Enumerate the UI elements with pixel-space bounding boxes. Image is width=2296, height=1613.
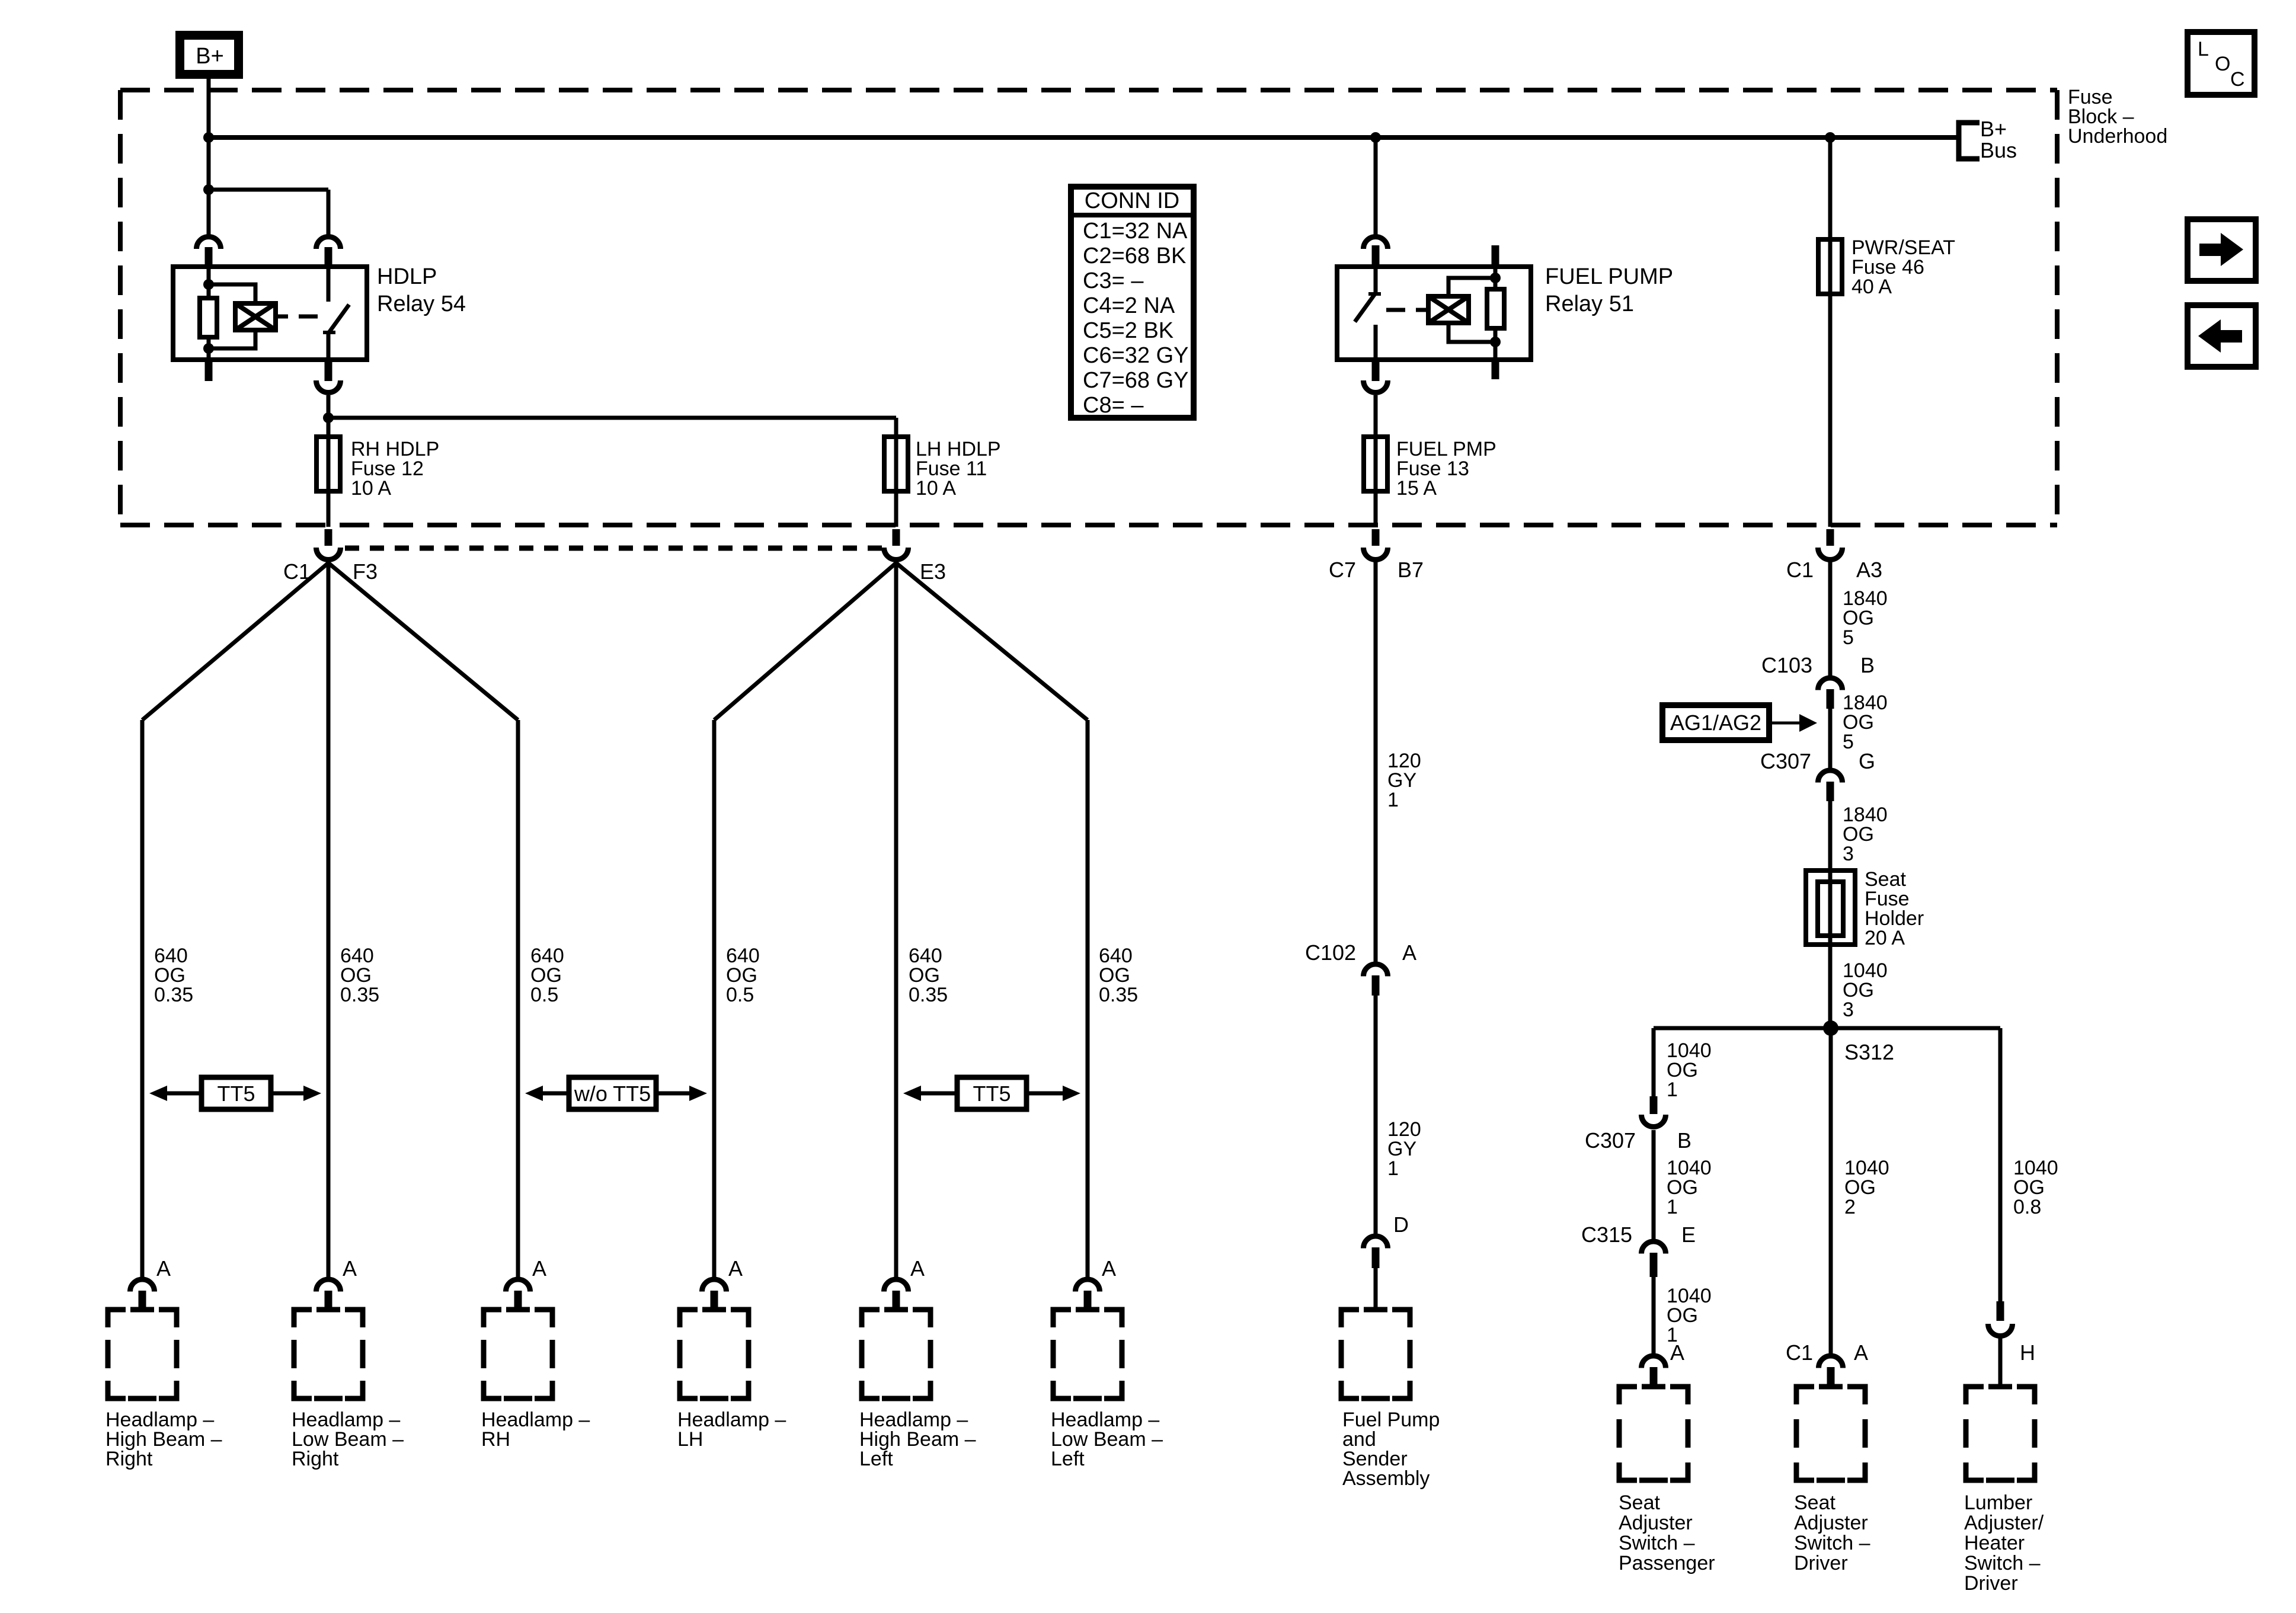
AG1/AG2 option box xyxy=(1662,705,1769,740)
svg-text:A3: A3 xyxy=(1856,558,1882,582)
relay K54: coil loop wires xyxy=(209,284,255,303)
B+ Bus terminal bracket xyxy=(1959,123,1980,159)
svg-text:B+: B+ xyxy=(196,44,224,69)
connector: fuel pump pin D xyxy=(1364,1236,1388,1249)
svg-text:C: C xyxy=(2230,68,2245,91)
svg-text:B: B xyxy=(1860,653,1875,677)
wire: bus to relay 51 switch pin xyxy=(1374,137,1378,235)
load box: Headlamp – High Beam – Right xyxy=(108,1310,126,1327)
svg-text:L: L xyxy=(2198,38,2209,60)
option arrow right (w/o TT5) xyxy=(656,1092,689,1096)
fuse F13 (FUEL PMP) xyxy=(1364,437,1387,491)
wire: fuel pump feed lower xyxy=(1374,996,1378,1234)
svg-text:C315: C315 xyxy=(1581,1222,1632,1247)
relay K54: coil (X-box) xyxy=(235,303,276,330)
relay K51: junction coil/resistor bottom xyxy=(1490,273,1501,283)
relay K54: case xyxy=(173,267,367,360)
wire: fuse 46 output xyxy=(1828,294,1833,527)
wire: B+ feed down to relay 54 coil pin xyxy=(207,79,211,235)
AG1/AG2 arrow xyxy=(1769,722,1802,725)
svg-text:A: A xyxy=(910,1256,925,1281)
svg-text:TT5: TT5 xyxy=(217,1081,255,1106)
svg-text:G: G xyxy=(1859,749,1875,773)
load box: Lumber Adjuster/Heater Switch - Driver xyxy=(1966,1387,1984,1404)
LOC legend box xyxy=(2188,32,2255,95)
wire: seat feed 1840 upper xyxy=(1828,562,1833,676)
relay K54: coil supply branch wire xyxy=(207,267,211,298)
svg-text:CONN ID: CONN ID xyxy=(1085,188,1179,213)
svg-text:B+: B+ xyxy=(1980,117,2007,141)
svg-text:Switch –: Switch – xyxy=(1964,1552,2041,1574)
svg-text:A: A xyxy=(728,1256,743,1281)
svg-text:B: B xyxy=(1677,1128,1691,1153)
svg-text:F3: F3 xyxy=(353,559,378,584)
connector half: headlamp 6 pin A xyxy=(1075,1279,1099,1292)
svg-text:C1=32 NA: C1=32 NA xyxy=(1083,219,1188,244)
load box: Headlamp – Low Beam – Right xyxy=(294,1310,312,1327)
fuse F11 (LH HDLP) xyxy=(884,437,908,491)
svg-text:20 A: 20 A xyxy=(1865,927,1905,949)
svg-text:A: A xyxy=(1854,1340,1868,1365)
connector C307 pin G xyxy=(1818,770,1843,783)
wire: fuse 13 output xyxy=(1374,491,1378,527)
svg-text:RH: RH xyxy=(481,1428,510,1451)
svg-text:0.35: 0.35 xyxy=(1099,984,1138,1006)
svg-text:C307: C307 xyxy=(1760,749,1811,773)
wire: passenger branch upper xyxy=(1652,1028,1656,1096)
connector C1 cavity A3 (pin) xyxy=(1827,529,1834,546)
svg-text:Switch –: Switch – xyxy=(1619,1532,1695,1554)
junction: RH/LH headlamp fuse feed xyxy=(323,412,334,423)
svg-text:C7: C7 xyxy=(1329,558,1356,582)
wire: passenger branch middle xyxy=(1652,1130,1656,1240)
svg-text:O: O xyxy=(2215,53,2230,75)
svg-text:HDLP: HDLP xyxy=(377,264,437,289)
svg-text:5: 5 xyxy=(1843,626,1854,649)
svg-text:C2=68 BK: C2=68 BK xyxy=(1083,244,1186,268)
connector C7 cavity B7 (pin) xyxy=(1372,529,1380,546)
wire: fuse 12 output xyxy=(327,491,331,527)
wire: feed across to LH HDLP fuse xyxy=(328,416,896,420)
svg-text:1: 1 xyxy=(1387,789,1399,811)
wire: seat feed 1840 middle xyxy=(1828,709,1833,769)
connector C102 pin A xyxy=(1364,964,1388,977)
B+ bus line xyxy=(209,135,1957,140)
svg-text:Bus: Bus xyxy=(1980,138,2017,162)
svg-text:Seat: Seat xyxy=(1794,1492,1835,1514)
svg-text:1: 1 xyxy=(1667,1078,1678,1101)
svg-text:Right: Right xyxy=(105,1448,153,1470)
relay K54: switch fixed contact xyxy=(327,267,331,302)
svg-text:LH: LH xyxy=(677,1428,703,1451)
svg-text:C4=2 NA: C4=2 NA xyxy=(1083,293,1175,318)
wire: bus to PWR/SEAT fuse xyxy=(1828,137,1833,239)
relay K51: switch output wire xyxy=(1374,267,1378,294)
svg-text:E3: E3 xyxy=(920,559,946,584)
wire: headlamp feed x=554 xyxy=(327,562,331,1278)
svg-text:B7: B7 xyxy=(1398,558,1424,582)
svg-text:0.5: 0.5 xyxy=(530,984,558,1006)
svg-text:C5=2 BK: C5=2 BK xyxy=(1083,318,1173,343)
seat fuse holder (in-line) xyxy=(1806,870,1855,945)
wire: splice bus to passenger and lumbar branches xyxy=(1654,1026,2000,1030)
wire: headlamp feed fan x=240 xyxy=(142,563,328,720)
svg-text:A: A xyxy=(156,1256,171,1281)
wire: passenger branch lower xyxy=(1652,1277,1656,1354)
wire: fuse holder to splice S312 xyxy=(1828,945,1833,1028)
svg-text:Right: Right xyxy=(292,1448,339,1470)
svg-text:2: 2 xyxy=(1844,1196,1856,1218)
svg-text:10 A: 10 A xyxy=(351,477,391,500)
connector: driver switch pin A xyxy=(1819,1356,1843,1368)
svg-text:1: 1 xyxy=(1667,1196,1678,1218)
svg-text:C8= –: C8= – xyxy=(1083,393,1144,418)
connector half: relay 54 pin (coil side) xyxy=(196,237,220,249)
svg-text:Passenger: Passenger xyxy=(1619,1552,1715,1574)
relay K54: switch output wire xyxy=(327,332,331,360)
svg-text:0.35: 0.35 xyxy=(909,984,948,1006)
connector half: headlamp 1 pin A xyxy=(130,1279,155,1292)
wire: driver branch xyxy=(1829,1028,1833,1354)
option arrow left (TT5) xyxy=(167,1092,202,1096)
svg-text:C307: C307 xyxy=(1585,1128,1636,1153)
svg-text:Driver: Driver xyxy=(1964,1572,2018,1595)
svg-text:D: D xyxy=(1393,1212,1409,1237)
relay K51: switch blade xyxy=(1355,294,1375,322)
wire: headlamp feed fan x=874 xyxy=(328,563,518,720)
wire: fuse 11 output xyxy=(894,491,898,527)
option box: TT5 xyxy=(957,1077,1027,1109)
wire: into lumbar switch xyxy=(1998,1338,2003,1387)
relay K51: actuator dashed link xyxy=(1416,308,1428,312)
connector half: headlamp 5 pin A xyxy=(884,1279,909,1292)
svg-text:40 A: 40 A xyxy=(1851,276,1892,298)
wire: relay 51 output to fuse 13 xyxy=(1374,395,1378,437)
wire: fuel pump feed upper xyxy=(1374,562,1378,962)
connector C1 cavity F3 (pin) xyxy=(325,529,332,546)
svg-text:C3= –: C3= – xyxy=(1083,268,1144,293)
wire: headlamp feed fan x=1205 xyxy=(714,563,896,720)
connector half: relay 51 switch output xyxy=(1372,360,1380,381)
connector: passenger switch pin A xyxy=(1642,1356,1666,1368)
connector half: headlamp 4 pin A xyxy=(702,1279,727,1292)
connector half: headlamp 2 pin A xyxy=(316,1279,341,1292)
svg-text:C103: C103 xyxy=(1761,653,1812,677)
wire: into fuel pump assembly xyxy=(1374,1268,1378,1310)
load box: Fuel Pump and Sender Assembly xyxy=(1341,1310,1359,1327)
svg-text:0.35: 0.35 xyxy=(154,984,193,1006)
wire: relay 54 output to fuse junction xyxy=(327,395,331,437)
svg-text:Driver: Driver xyxy=(1794,1552,1848,1574)
svg-text:Left: Left xyxy=(1051,1448,1085,1470)
connector half: headlamp 3 pin A xyxy=(506,1279,530,1292)
relay K51: switch fixed contact xyxy=(1374,325,1378,360)
wire: seat feed 1840 lower xyxy=(1828,801,1833,870)
load box: Headlamp – High Beam – Left xyxy=(862,1310,880,1327)
connector C1 cavity E3 (pin) xyxy=(893,529,900,546)
connector: lumbar switch pin H xyxy=(1997,1301,2004,1321)
svg-text:A: A xyxy=(1402,940,1416,965)
svg-text:15 A: 15 A xyxy=(1396,477,1437,500)
svg-text:Assembly: Assembly xyxy=(1342,1467,1430,1490)
fuse F12 (RH HDLP) xyxy=(316,437,340,491)
relay K54: suppression resistor xyxy=(200,298,217,337)
svg-text:C1: C1 xyxy=(1786,558,1814,582)
relay K51: coil (X-box) xyxy=(1428,296,1469,323)
connector half: relay 51 switch pin xyxy=(1364,237,1388,249)
svg-text:Heater: Heater xyxy=(1964,1532,2025,1554)
option arrow right (TT5) xyxy=(1027,1092,1063,1096)
load box: Seat Adjuster Switch - Passenger xyxy=(1619,1387,1637,1404)
svg-text:S312: S312 xyxy=(1844,1040,1894,1064)
option box: TT5 xyxy=(202,1077,271,1109)
connector half: relay 54 switch output xyxy=(325,360,332,381)
connector C1 body (dotted line) xyxy=(345,546,882,551)
svg-text:Seat: Seat xyxy=(1619,1492,1660,1514)
relay K54: actuator dashed link xyxy=(276,315,288,319)
svg-text:A: A xyxy=(343,1256,357,1281)
svg-text:Relay 54: Relay 54 xyxy=(377,292,466,316)
relay K51: pin stubs xyxy=(1492,360,1499,379)
svg-text:C1: C1 xyxy=(1786,1340,1813,1365)
CONN ID table box xyxy=(1071,187,1194,418)
svg-text:Underhood: Underhood xyxy=(2068,125,2167,148)
relay K51: case xyxy=(1337,267,1531,360)
svg-text:Relay 51: Relay 51 xyxy=(1545,292,1634,316)
load box: Headlamp – LH xyxy=(680,1310,698,1327)
wire: headlamp feed fan x=1835 xyxy=(896,563,1088,720)
svg-text:3: 3 xyxy=(1843,998,1854,1021)
svg-text:C102: C102 xyxy=(1305,940,1356,965)
svg-text:1: 1 xyxy=(1387,1157,1399,1180)
relay K54: switch blade xyxy=(329,305,349,332)
svg-text:E: E xyxy=(1681,1222,1696,1247)
load box: Seat Adjuster Switch - Driver xyxy=(1796,1387,1814,1404)
svg-text:5: 5 xyxy=(1843,731,1854,753)
svg-text:Adjuster: Adjuster xyxy=(1794,1512,1868,1534)
wire: headlamp feed x=1512 xyxy=(894,562,898,1278)
svg-text:C6=32 GY: C6=32 GY xyxy=(1083,343,1189,368)
option arrow left (TT5) xyxy=(921,1092,957,1096)
svg-text:Adjuster/: Adjuster/ xyxy=(1964,1512,2044,1534)
wire: branch to relay 54 switch pin xyxy=(209,188,328,192)
relay K51: suppression resistor xyxy=(1487,289,1504,328)
svg-text:3: 3 xyxy=(1843,843,1854,865)
legend box: arrow left xyxy=(2188,305,2256,367)
svg-text:AG1/AG2: AG1/AG2 xyxy=(1670,711,1761,735)
relay K54: pin stubs xyxy=(205,247,213,267)
relay K51: coil supply branch wire xyxy=(1494,328,1498,360)
svg-text:0.5: 0.5 xyxy=(726,984,754,1006)
svg-text:A: A xyxy=(532,1256,546,1281)
wire: lumbar branch xyxy=(1998,1028,2003,1301)
splice S312 xyxy=(1823,1020,1838,1036)
svg-text:Left: Left xyxy=(859,1448,893,1470)
svg-text:0.35: 0.35 xyxy=(340,984,379,1006)
option arrow right (TT5) xyxy=(271,1092,303,1096)
fuse block - underhood (dashed boundary box) xyxy=(120,88,2057,92)
B+ power feed box xyxy=(180,36,239,75)
load box: Headlamp – Low Beam – Left xyxy=(1053,1310,1071,1327)
connector C103 pin B xyxy=(1818,678,1843,690)
relay K51: coil loop wires xyxy=(1448,323,1495,342)
svg-text:0.8: 0.8 xyxy=(2013,1196,2041,1218)
connector C315 pin E xyxy=(1642,1241,1666,1254)
junction: relay 54 coil/switch feed xyxy=(203,184,214,195)
svg-text:FUEL PUMP: FUEL PUMP xyxy=(1545,264,1673,289)
svg-text:Lumber: Lumber xyxy=(1964,1492,2032,1514)
junction: bus / PWR-SEAT fuse branch xyxy=(1825,132,1835,143)
svg-text:TT5: TT5 xyxy=(973,1081,1011,1106)
svg-text:10 A: 10 A xyxy=(916,477,956,500)
svg-text:A: A xyxy=(1102,1256,1116,1281)
legend box: arrow right xyxy=(2188,219,2256,281)
option box: w/o TT5 xyxy=(569,1077,656,1109)
fuse F46 (PWR/SEAT) xyxy=(1818,239,1842,294)
relay K51: junction coil/resistor top xyxy=(1490,337,1501,347)
load box: Headlamp – RH xyxy=(484,1310,501,1327)
connector C307 pin B (passenger) xyxy=(1650,1096,1658,1114)
svg-text:A: A xyxy=(1670,1340,1684,1365)
svg-text:C7=68 GY: C7=68 GY xyxy=(1083,368,1189,393)
connector half: relay 54 pin (switch side) xyxy=(316,237,341,249)
svg-text:Switch –: Switch – xyxy=(1794,1532,1870,1554)
junction: bus / fuel pump relay branch xyxy=(1370,132,1381,143)
svg-text:w/o TT5: w/o TT5 xyxy=(574,1081,651,1106)
relay K54: junction coil/resistor bottom xyxy=(203,343,214,354)
relay K54: junction coil/resistor top xyxy=(203,279,214,290)
junction: B+ feed / bus xyxy=(203,132,214,143)
svg-text:Adjuster: Adjuster xyxy=(1619,1512,1693,1534)
option arrow left (w/o TT5) xyxy=(543,1092,569,1096)
svg-text:H: H xyxy=(2020,1340,2035,1365)
